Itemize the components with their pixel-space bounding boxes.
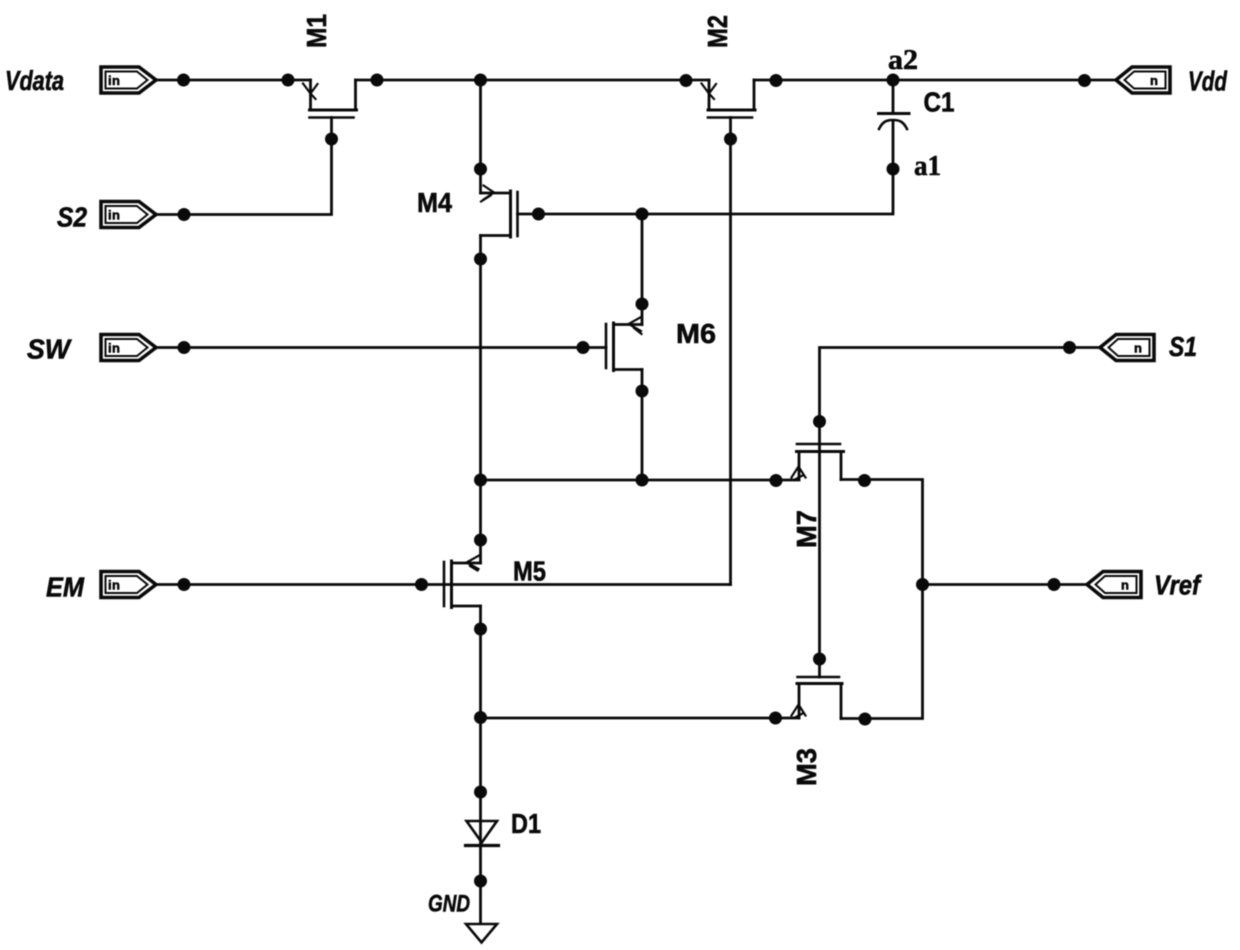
svg-text:M2: M2 [702,15,733,48]
diode D1 [466,821,499,846]
wire S2 to M1 gate with pin dots [156,133,338,222]
wire mid rail to M7 source with junction dot [481,474,800,487]
port SW [101,335,156,361]
wire M4 source down to mid rail with pin dots [474,236,487,564]
transistor M2 [702,80,756,139]
wire top rail middle segment with junction dots [356,74,710,88]
svg-text:in: in [108,73,120,88]
svg-text:M5: M5 [513,556,546,587]
wire M2 gate down to EM rail with pin dot [724,133,737,585]
svg-text:n: n [1134,341,1142,356]
svg-text:in: in [108,208,120,223]
wire M6 source down to mid rail with pin dots [636,370,649,487]
wire node a1: C1 bottom to M4 gate rail with junction dots [532,122,900,221]
svg-text:M7: M7 [791,510,822,548]
svg-text:S2: S2 [57,202,87,233]
ground symbol [466,924,497,943]
svg-text:Vref: Vref [1154,570,1202,601]
svg-text:M4: M4 [417,187,452,218]
port EM [101,572,156,598]
svg-text:S1: S1 [1169,331,1197,362]
wire bottom rail to M3 source with junction dot [481,712,800,725]
transistor M1 [303,80,357,139]
svg-text:n: n [1150,73,1158,88]
svg-text:a2: a2 [888,45,918,76]
wire M6 drain from a1 rail with pin dot [636,214,649,325]
port Vdd [1116,67,1170,93]
svg-text:SW: SW [27,334,72,365]
svg-text:in: in [108,578,120,593]
port Vref [1087,572,1141,598]
transistor M4 [481,186,539,238]
capacitor C1 [879,80,910,129]
port S2 [101,202,156,228]
wire D1 to ground with pin dot [474,846,487,925]
transistor M7 [792,444,844,480]
wire M7 drain to Vref rail and M3 drain with pin dots [841,474,929,726]
wire S1 to M7/M3 gates with pin dots [813,341,1100,677]
port S1 [1100,335,1154,361]
svg-text:C1: C1 [924,87,955,118]
svg-text:GND: GND [428,891,470,918]
svg-text:M3: M3 [791,748,822,786]
wire Vref rail with pin dot [923,578,1088,591]
svg-text:Vdata: Vdata [5,65,64,96]
port Vdata [101,67,156,93]
svg-text:Vdd: Vdd [1188,66,1228,97]
svg-text:n: n [1121,578,1129,593]
svg-text:in: in [108,341,120,356]
svg-text:a1: a1 [914,151,941,182]
wire top rail Vdata segment with junction dots [156,74,311,87]
wire top rail to M4 drain with pin dot [474,80,487,193]
transistor M6 [583,317,642,371]
wire SW to M6 gate with pin dots [156,341,590,354]
transistor M5 [444,556,481,608]
transistor M3 [792,677,843,719]
svg-text:EM: EM [46,572,85,603]
svg-text:M6: M6 [676,318,716,349]
svg-text:M1: M1 [301,14,332,48]
wire EM to M5 gate and M2 gate with pin dots [156,578,731,591]
wire M5 source down to bottom rail with pin dots [474,606,487,846]
svg-text:D1: D1 [511,808,541,839]
wire top rail Vdd segment with junction dots [754,74,1116,88]
